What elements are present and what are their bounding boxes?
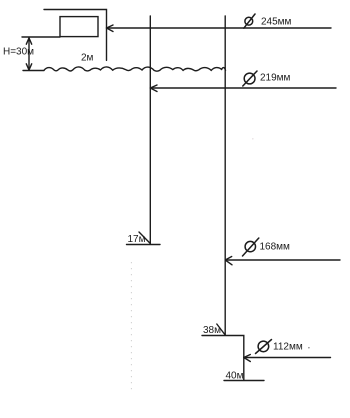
svg-text:219мм: 219мм [260,73,291,84]
svg-text:17м: 17м [128,234,146,245]
svg-text:112мм: 112мм [273,342,303,353]
svg-text:40м: 40м [226,370,244,381]
svg-text:245мм: 245мм [261,17,292,28]
svg-text:168мм: 168мм [260,242,291,253]
svg-text:38м: 38м [203,325,221,336]
svg-text:2м: 2м [81,53,94,64]
svg-text:H=30м: H=30м [3,47,34,58]
